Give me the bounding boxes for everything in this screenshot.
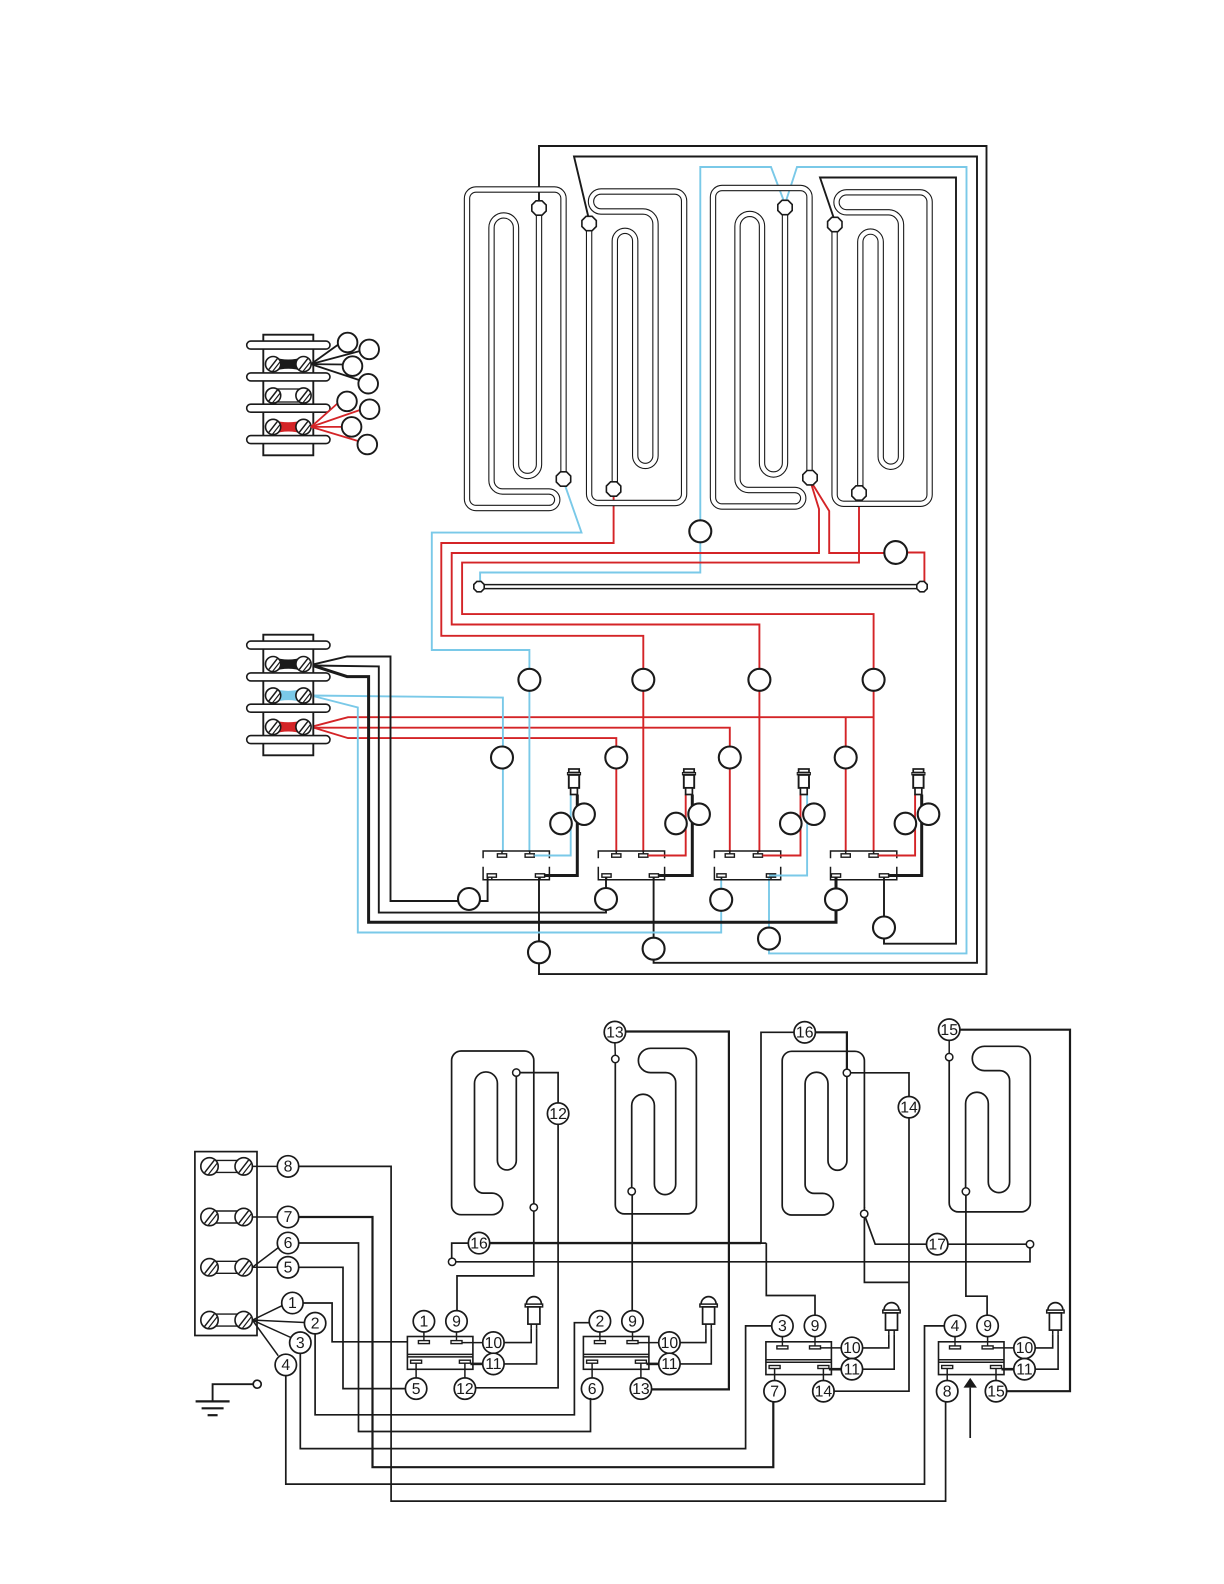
wire 3 (TB3 to S7): [300, 1326, 772, 1449]
svg-text:7: 7: [770, 1383, 779, 1400]
label 11 at S6: [646, 1363, 658, 1366]
wire 9 S8 (element E8 node N2 to switch S8): [966, 1195, 987, 1315]
wire label11 to lamp L5: [504, 1328, 536, 1364]
svg-text:10: 10: [1016, 1340, 1034, 1357]
wire 6 (TB3 to S6): [299, 1243, 591, 1432]
wire 14 (element E7 node N1 to switch S7): [851, 1073, 909, 1097]
wire label10 to lamp L7: [863, 1334, 889, 1348]
ground symbol: [213, 1384, 254, 1401]
switch S7 body: [766, 1342, 832, 1375]
wire red H2 (terminal block TB2 to switch S3): [311, 728, 730, 852]
element E6 node N1: [612, 1055, 619, 1062]
label 6 at TB3: [277, 1232, 298, 1253]
ring row1-3 on red: [748, 669, 770, 691]
wire blue rect (element E1 to switch S1 right terminal): [432, 481, 582, 852]
ring T1e: [337, 392, 357, 412]
ring under S1 right: [528, 941, 550, 963]
label 11 at S7: [829, 1368, 841, 1371]
label 6 at S6: [591, 1363, 593, 1378]
wire red B2 (element E3 to junction ring J2): [810, 480, 884, 553]
ring on blue mid vertical: [689, 520, 711, 542]
svg-text:3: 3: [778, 1318, 787, 1335]
label 10 at S8: [993, 1347, 1014, 1349]
wire label11 to lamp L8: [1035, 1334, 1058, 1369]
ring row2-3 on red: [719, 747, 741, 769]
svg-text:10: 10: [485, 1335, 503, 1352]
ring T1c: [343, 356, 363, 376]
switch S1 with lamp L1: [483, 851, 549, 858]
label 9 at S8: [987, 1337, 989, 1342]
label 16 left: [468, 1232, 489, 1253]
svg-text:12: 12: [456, 1381, 474, 1398]
svg-text:10: 10: [843, 1340, 861, 1357]
label 10 at S5: [462, 1342, 483, 1344]
wire black B2 (TB2 to switch S2 lower terminal): [311, 666, 606, 913]
svg-text:5: 5: [412, 1381, 421, 1398]
label 11 at S8: [1002, 1368, 1014, 1371]
wire blue border loop (switch S3 to element E3 terminal): [769, 167, 967, 953]
wire red fan from TB1 to rings: [311, 403, 338, 427]
element E8 node N2: [962, 1188, 969, 1195]
wire long horizontal to 17 end node: [456, 1248, 1030, 1262]
svg-text:9: 9: [452, 1314, 461, 1331]
svg-text:2: 2: [596, 1314, 605, 1331]
element E1 serpentine tube: [467, 190, 564, 509]
wire black border loop 3 (switch S4 to element E4 terminal): [820, 178, 956, 944]
svg-text:3: 3: [296, 1335, 305, 1352]
element E8 node N1: [946, 1053, 953, 1060]
element E2 node N1: [582, 216, 596, 230]
element E5 node B: [530, 1204, 537, 1211]
wire 15 (element E8 node N1 to switch S8): [960, 1030, 1070, 1392]
wire label10 to lamp L8: [1035, 1334, 1053, 1348]
svg-text:16: 16: [470, 1235, 488, 1252]
label 13 at S6: [640, 1363, 642, 1378]
element E3 node N2: [803, 471, 817, 485]
bus node B: [917, 581, 927, 591]
wire blue TB2 branch to switch S3 lower-left terminal: [311, 696, 721, 933]
wire blue branch to bus node A: [480, 167, 785, 583]
ring under S4 left: [825, 888, 847, 910]
wire label10 to lamp L6: [680, 1328, 706, 1343]
wire 1 (TB3 to S5): [303, 1303, 407, 1342]
ring pair at lamp L3: [780, 813, 802, 835]
svg-text:6: 6: [588, 1381, 597, 1398]
element E4 node N1: [828, 217, 842, 231]
label 7 at S7: [774, 1369, 776, 1381]
switch S2 with lamp L2: [598, 851, 664, 858]
label 1 at TB3: [282, 1292, 303, 1313]
svg-text:10: 10: [661, 1335, 679, 1352]
wire label11 to lamp L7: [863, 1334, 895, 1369]
wire black B1 continuation through ring to terminal: [480, 877, 488, 901]
svg-text:8: 8: [943, 1383, 952, 1400]
wire 16 (element E7 node N1 loop): [816, 1032, 847, 1069]
terminal block TB1: [263, 335, 313, 456]
wire red H3 (terminal block TB2 to switch S2): [311, 727, 616, 852]
label 3 at TB3: [290, 1332, 311, 1353]
label 5 at TB3: [277, 1257, 298, 1278]
switch S5 body: [407, 1337, 473, 1370]
label 11 at S5: [470, 1363, 482, 1366]
wire black B1 (TB2 to switch S1 lower terminal): [311, 657, 458, 902]
wire red B (element E3 to switch S3): [452, 480, 819, 852]
ring J2 near bus: [884, 541, 907, 564]
label 1 at S5: [423, 1332, 425, 1337]
wire red C (element E4 to switch S4): [462, 496, 873, 852]
element E5 node A: [513, 1069, 520, 1076]
switch S3 with lamp L3: [714, 851, 780, 858]
svg-text:11: 11: [661, 1356, 678, 1373]
wire label11 to lamp L6: [680, 1328, 711, 1364]
label 17: [927, 1234, 948, 1255]
svg-text:14: 14: [900, 1099, 918, 1116]
ring T1h: [358, 435, 378, 455]
ring under S3 left: [710, 889, 732, 911]
label 14 mid: [898, 1097, 919, 1118]
ring pair at lamp L1: [550, 813, 572, 835]
svg-text:4: 4: [951, 1318, 960, 1335]
svg-text:9: 9: [628, 1314, 637, 1331]
label 4 at TB3: [275, 1354, 296, 1375]
svg-text:1: 1: [288, 1295, 297, 1312]
terminal block TB2: [263, 635, 313, 756]
ring T1g: [342, 417, 362, 437]
wire black B3 thick (TB2 to switch S4 lower terminal): [311, 665, 836, 922]
ring T1d: [358, 374, 378, 394]
element E1 node N1: [532, 201, 546, 215]
wire 9 S7 (switch S7 to wire 16): [766, 1243, 815, 1315]
wire red H1 (terminal block TB2 to switch S4): [311, 717, 874, 727]
label 12 at S5: [464, 1363, 466, 1378]
wire 5 (TB3 to S5): [299, 1267, 405, 1388]
wire blue TB2 to switch S1 left terminal: [311, 696, 503, 853]
arrow marker under S8: [964, 1378, 977, 1388]
svg-text:8: 8: [284, 1159, 293, 1176]
wire 16 stub with end node: [452, 1243, 469, 1258]
svg-text:13: 13: [606, 1024, 624, 1041]
wire 4 (TB3 to S8): [286, 1326, 944, 1484]
bus node A: [474, 581, 484, 591]
svg-text:13: 13: [632, 1381, 650, 1398]
wire 8 (TB3 to S8): [299, 1166, 946, 1501]
element E3 serpentine tube: [713, 188, 810, 507]
ring under S1 left: [458, 888, 480, 910]
element E7 node B: [861, 1210, 868, 1217]
element E5 serpentine: [452, 1051, 534, 1215]
svg-text:6: 6: [284, 1235, 293, 1252]
svg-text:2: 2: [311, 1315, 320, 1332]
lamp L6: [701, 1297, 716, 1304]
label 5 at S5: [415, 1363, 417, 1378]
svg-text:11: 11: [1016, 1361, 1033, 1378]
label 3 at S7: [781, 1337, 783, 1342]
label 14 at S7: [822, 1369, 824, 1381]
svg-text:16: 16: [796, 1025, 814, 1042]
svg-text:11: 11: [485, 1356, 502, 1373]
ring pair at lamp L4: [895, 813, 917, 835]
svg-text:4: 4: [281, 1357, 290, 1374]
lamp L8: [1048, 1303, 1063, 1310]
ring T1b: [359, 340, 379, 360]
wire 12 (element E5 node A to switch S5): [475, 1073, 558, 1388]
wire black border loop 2 (switch S2 to element E2 terminal): [574, 157, 977, 963]
element E7 node N1: [843, 1069, 850, 1076]
wire red A (element E2 to switch S2): [441, 492, 643, 852]
wire red from junction ring J2 to bus node B: [907, 553, 924, 583]
label 12 mid: [547, 1103, 568, 1124]
wire 9 S5 (element E5 node B to switch S5): [457, 1207, 534, 1310]
wire black outer border loop (switch S1 to element E1 terminal): [539, 146, 987, 974]
wire 13 (element E6 node N1 to switch S6): [626, 1032, 729, 1390]
element E8 serpentine: [949, 1046, 1030, 1212]
ring under S2 right: [643, 938, 665, 960]
label 7 at TB3: [277, 1206, 298, 1227]
label 13 pair top: [604, 1021, 625, 1042]
ring row1-1 on blue: [518, 669, 540, 691]
terminal block TB3: [195, 1152, 257, 1336]
ring row2-1 on blue: [491, 747, 513, 769]
element E3 node N1: [778, 200, 792, 214]
label 9 at S7: [814, 1337, 816, 1342]
svg-text:11: 11: [844, 1361, 861, 1378]
label 16 right: [794, 1022, 815, 1043]
svg-text:1: 1: [420, 1314, 429, 1331]
element E2 serpentine tube: [589, 192, 684, 504]
label 4 at S8: [954, 1337, 956, 1342]
label 15 pair top: [939, 1019, 960, 1040]
wire 17 (element E7 node B to end node): [864, 1214, 926, 1244]
label 2 at S6: [599, 1332, 601, 1337]
svg-text:15: 15: [987, 1383, 1005, 1400]
label 8 at S8: [946, 1369, 948, 1381]
wire red H1 branch down to switch S4 terminal: [845, 717, 847, 852]
wire 9 S6 (element E6 node N2 to switch S6): [631, 1195, 633, 1311]
svg-text:15: 15: [940, 1022, 958, 1039]
lamp L7: [884, 1303, 899, 1310]
svg-text:7: 7: [284, 1209, 293, 1226]
label 2 at TB3: [304, 1313, 325, 1334]
element E7 serpentine: [782, 1051, 864, 1215]
label 8 at TB3: [277, 1156, 298, 1177]
lamp L5: [526, 1297, 541, 1304]
ring under S4 right: [873, 917, 895, 939]
svg-text:9: 9: [811, 1318, 820, 1335]
ring row1-2 on red: [632, 669, 654, 691]
bus bar double line: [479, 584, 922, 586]
label 15 at S8: [995, 1369, 997, 1381]
ring T1f: [360, 399, 380, 419]
element E4 serpentine tube: [835, 192, 930, 504]
ring row2-2 on red: [605, 747, 627, 769]
svg-text:5: 5: [284, 1260, 293, 1277]
switch S6 body: [583, 1337, 649, 1370]
ring under S3 right: [758, 928, 780, 950]
svg-text:17: 17: [928, 1236, 946, 1253]
label 10 at S6: [638, 1342, 659, 1344]
label 9 at S6: [632, 1332, 634, 1337]
label 10 at S7: [821, 1347, 842, 1349]
element E1 node N2: [556, 472, 570, 486]
element E2 node N2: [606, 482, 620, 496]
element E6 node N2: [628, 1188, 635, 1195]
ring row1-4 on red: [863, 669, 885, 691]
wire label10 to lamp L5: [504, 1328, 531, 1343]
svg-text:12: 12: [549, 1106, 567, 1123]
wire 7 (TB3 to S7): [299, 1217, 774, 1467]
ring pair at lamp L2: [665, 813, 687, 835]
ring row2-4 on red: [835, 747, 857, 769]
svg-text:9: 9: [983, 1318, 992, 1335]
wire black fan from TB1 to rings: [311, 344, 339, 364]
ring T1a: [338, 333, 358, 353]
wire element E7 node B jog: [864, 1207, 909, 1282]
svg-text:14: 14: [815, 1383, 833, 1400]
switch S4 with lamp L4: [831, 851, 897, 858]
element E4 node N2: [852, 486, 866, 500]
element E6 serpentine: [615, 1048, 696, 1214]
wire 2 (TB3 to S6): [315, 1323, 588, 1415]
ring under S2 left: [595, 888, 617, 910]
label 9 at S5: [456, 1332, 458, 1337]
switch S8 body: [939, 1342, 1005, 1375]
